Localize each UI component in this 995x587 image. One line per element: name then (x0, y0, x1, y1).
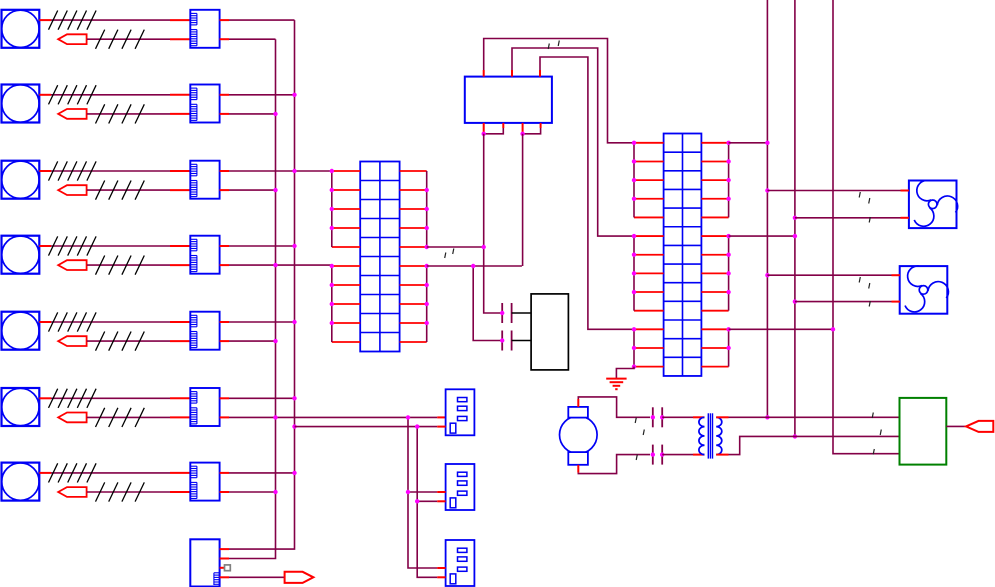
bus slash marks (49, 11, 97, 30)
wire (220, 245, 229, 247)
wire (220, 94, 229, 96)
input port arrow P3 (58, 185, 86, 195)
input port arrow P7 (58, 487, 86, 497)
wire (220, 472, 229, 474)
wire (662, 454, 704, 456)
wire (522, 134, 524, 266)
wire (220, 264, 229, 266)
node (500, 338, 504, 342)
wire (795, 301, 900, 303)
capacitor C2 (502, 331, 511, 351)
optical sensor PD5 (2, 312, 40, 350)
optical sensor PD6 (2, 388, 40, 426)
node U1-4/5 (482, 132, 486, 136)
node (406, 415, 410, 419)
node (482, 245, 486, 249)
bus slash marks (96, 482, 145, 501)
junction dots left buses (273, 93, 296, 495)
wire (295, 426, 446, 428)
wire (417, 500, 445, 502)
wire (220, 321, 229, 323)
wire (484, 134, 502, 313)
control unit U1 (465, 77, 552, 123)
wire (729, 328, 833, 330)
bus slash marks (96, 256, 145, 275)
wire (87, 340, 190, 342)
test pad (225, 565, 231, 571)
connector J5 (190, 312, 219, 350)
wire (728, 329, 730, 366)
relay K1 (446, 389, 475, 435)
node (660, 452, 664, 456)
wire (633, 236, 635, 311)
wire (795, 217, 909, 219)
driver unit U3 (900, 398, 947, 465)
input port arrow P5 (58, 336, 86, 346)
wire (87, 113, 190, 115)
wire (426, 171, 428, 247)
wire (220, 397, 229, 399)
wire U1 pin4 (483, 123, 485, 134)
fan M1 (909, 180, 961, 230)
bus slash marks (49, 389, 97, 408)
wire (220, 558, 229, 560)
terminal block TB2 (664, 134, 702, 376)
motor M3 (560, 407, 598, 465)
wire (39, 19, 190, 21)
wire U1 pin5 (484, 123, 504, 134)
bus slash marks (96, 332, 145, 351)
node (415, 499, 419, 503)
wire (716, 436, 899, 454)
wire (427, 265, 522, 267)
optical sensor PD7 (2, 463, 40, 501)
bus slash marks (96, 104, 145, 123)
wire (716, 416, 899, 418)
wire (220, 113, 229, 115)
node (471, 264, 475, 268)
wire (229, 189, 276, 191)
wire (220, 340, 229, 342)
junction dots right buses (765, 141, 835, 439)
bus slash marks (96, 408, 145, 427)
wire bus B (229, 20, 295, 549)
wire (767, 274, 900, 276)
wire TB2 left stubs (634, 143, 664, 367)
node (651, 415, 655, 419)
optical sensor PD1 (2, 10, 40, 48)
wire (39, 397, 190, 399)
wire TB1 left stubs (332, 171, 360, 342)
pin number ticks (859, 192, 870, 223)
input port arrow P6 (58, 413, 86, 423)
junction dots TB2 left (632, 141, 636, 369)
connector J2 (190, 85, 219, 123)
bus slash marks (49, 85, 97, 104)
wire (229, 94, 295, 96)
node (660, 415, 664, 419)
capacitor C1 (502, 303, 511, 323)
wire (229, 113, 276, 115)
input port arrow P1 (58, 34, 86, 44)
bus slash marks (49, 161, 97, 180)
wire (39, 94, 190, 96)
junction dots TB2 right (726, 141, 730, 351)
wire TB2 right stubs (701, 143, 728, 367)
wire (229, 321, 295, 323)
wire (473, 266, 502, 341)
bus slash marks (49, 312, 97, 331)
wire (616, 367, 634, 379)
junction dots TB1 left (330, 169, 334, 325)
wire bus V1 (766, 0, 768, 417)
wire (662, 416, 704, 418)
wire bus V3 (833, 0, 900, 454)
wire (728, 236, 730, 311)
pin number ticks (859, 277, 870, 307)
output port arrow P9 (285, 572, 314, 583)
wire (220, 491, 229, 493)
relay K3 (446, 540, 475, 586)
wire (512, 312, 531, 314)
wire (39, 245, 190, 247)
output port arrow P8 (966, 421, 993, 432)
relay K2 (446, 464, 475, 510)
bus slash marks (96, 30, 145, 49)
wire U1 pin6 (522, 123, 524, 134)
wire (229, 340, 276, 342)
bus slash marks (49, 463, 97, 482)
pin number ticks (548, 41, 559, 50)
bus slash marks (96, 181, 145, 200)
connector J3 (190, 161, 219, 199)
wire (229, 170, 332, 172)
wire (39, 170, 190, 172)
node U1-6/7 (520, 132, 524, 136)
wire U1 pin2 (512, 48, 634, 236)
wire (220, 548, 229, 550)
optical sensor PD3 (2, 161, 40, 199)
node (651, 452, 655, 456)
input port arrow P2 (58, 109, 86, 119)
wire (229, 397, 295, 399)
connector J1 (190, 10, 219, 48)
junction dots TB1 right (425, 188, 429, 325)
pin number ticks (445, 249, 454, 259)
pin number ticks (635, 418, 644, 461)
wire (220, 576, 285, 578)
wire U1 pin1 (484, 39, 634, 143)
wire (946, 425, 966, 427)
capacitor C4 (653, 445, 662, 465)
optical sensor PD4 (2, 236, 40, 274)
terminal block TB1 (360, 162, 399, 352)
wire (220, 38, 229, 40)
wire (220, 416, 229, 418)
wire (229, 245, 295, 247)
wire (729, 235, 795, 237)
capacitor C3 (653, 407, 662, 427)
bus slash marks (49, 236, 97, 255)
interface unit U4 (190, 539, 219, 586)
wire (633, 329, 635, 366)
wire (87, 416, 190, 418)
wire (220, 189, 229, 191)
wire (220, 19, 229, 21)
pin number ticks (872, 413, 881, 455)
fan M2 (900, 266, 952, 316)
node (406, 490, 410, 494)
wire (728, 143, 730, 218)
wire (427, 246, 484, 248)
processing unit U2 (531, 294, 568, 370)
wire (426, 266, 428, 342)
input port arrow P4 (58, 260, 86, 270)
connector J6 (190, 388, 219, 426)
optical sensor PD2 (2, 85, 40, 123)
wire (39, 321, 190, 323)
wire U1 pin3 (540, 57, 634, 329)
wire (331, 171, 333, 247)
wire (408, 417, 446, 568)
transformer T1 (699, 413, 722, 458)
connector J4 (190, 236, 219, 274)
wire (229, 416, 446, 418)
wire bus A (229, 39, 276, 558)
wire (767, 190, 909, 192)
wire (87, 38, 190, 40)
wire (229, 264, 332, 266)
wire (87, 264, 190, 266)
wire (220, 170, 229, 172)
wire (417, 427, 445, 578)
wire (408, 491, 446, 493)
wire (220, 567, 225, 569)
wire (87, 491, 190, 493)
node (415, 424, 419, 428)
wire (331, 266, 333, 342)
wire (578, 455, 650, 474)
ground (606, 379, 626, 390)
wire TB1 right stubs (400, 171, 427, 342)
node (500, 311, 504, 315)
wire (633, 143, 635, 218)
connector J7 (190, 463, 219, 501)
wire (729, 142, 768, 144)
wire bus V2 (794, 0, 796, 436)
wire (578, 397, 650, 417)
wire (512, 340, 531, 342)
wire U1 pin7 (523, 123, 541, 134)
wire (229, 491, 276, 493)
wire (39, 472, 190, 474)
wire (87, 189, 190, 191)
wire (229, 472, 295, 474)
